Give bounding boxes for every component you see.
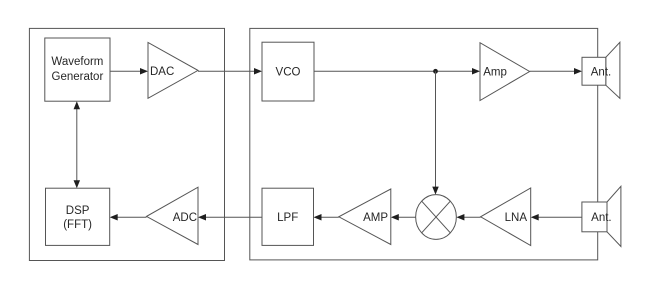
wire LNA to mixer (456, 214, 480, 221)
svg-text:Ant.: Ant. (591, 212, 611, 224)
amplifier LNA (481, 188, 531, 246)
wire AMP to LPF (314, 214, 339, 221)
amplifier DAC (148, 43, 198, 99)
amplifier Amp (480, 43, 530, 101)
wire Amp to transmit antenna (530, 68, 582, 75)
transmit antenna Ant. (582, 42, 620, 98)
wire receive antenna to LNA (531, 214, 582, 221)
svg-text:AMP: AMP (363, 212, 388, 224)
digital section enclosure box (29, 28, 224, 260)
node junction dot on VCO-Amp wire (433, 69, 438, 74)
amplifier ADC (147, 187, 199, 244)
wire junction down to mixer (432, 71, 439, 194)
wire ADC to DSP (110, 214, 147, 221)
wire DAC to VCO (198, 68, 262, 75)
svg-text:ADC: ADC (173, 212, 197, 224)
block VCO (262, 42, 314, 101)
amplifier AMP (339, 189, 391, 245)
wire VCO to Amp (314, 68, 480, 75)
svg-text:LNA: LNA (505, 212, 528, 224)
wire LPF to ADC (198, 214, 262, 221)
block LPF (262, 188, 314, 245)
receive antenna Ant. (582, 186, 621, 246)
svg-text:VCO: VCO (276, 67, 301, 79)
svg-text:Amp: Amp (483, 67, 507, 79)
wire DSP to Waveform Generator (double arrow) (74, 101, 81, 188)
svg-text:LPF: LPF (277, 212, 298, 224)
svg-text:Generator: Generator (52, 71, 104, 83)
svg-text:Waveform: Waveform (51, 56, 103, 68)
block Waveform Generator (45, 38, 110, 101)
svg-text:(FFT): (FFT) (63, 219, 92, 231)
svg-text:Ant.: Ant. (591, 67, 611, 79)
mixer (416, 195, 457, 240)
svg-text:DSP: DSP (66, 205, 90, 217)
wire mixer to AMP (391, 214, 416, 221)
block DSP (FFT) (46, 188, 110, 245)
wire Waveform Generator to DAC (110, 68, 148, 75)
svg-text:DAC: DAC (150, 66, 174, 78)
RF section enclosure box (250, 28, 598, 260)
